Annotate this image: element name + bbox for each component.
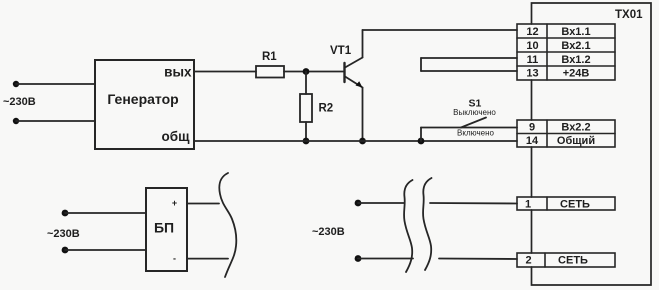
wire R1 to base bbox=[284, 71, 344, 73]
wire BP minus out bbox=[187, 258, 228, 260]
wire break to pin 2 bbox=[439, 258, 517, 261]
svg-text:2: 2 bbox=[525, 255, 531, 267]
wire S1 to pin 9 bbox=[421, 127, 517, 129]
wire break to pin 1 bbox=[430, 202, 517, 205]
node mains input top-left terminal upper bbox=[13, 81, 19, 87]
node junction R2/common rail bbox=[303, 138, 310, 145]
connector table pins 12/10/11/13 bbox=[517, 24, 615, 80]
svg-text:Выключено: Выключено bbox=[453, 108, 496, 117]
resistor R2 bbox=[300, 94, 312, 122]
node mains input top-left terminal lower bbox=[13, 118, 19, 124]
wire bbox=[16, 83, 95, 85]
svg-text:Общий: Общий bbox=[557, 135, 595, 147]
svg-text:Генератор: Генератор bbox=[107, 91, 178, 107]
cable break wavy line at BP bbox=[219, 173, 236, 277]
node PSU input terminal lower bbox=[62, 247, 69, 254]
svg-text:Включено: Включено bbox=[457, 129, 494, 138]
node mains mid terminal lower bbox=[355, 255, 362, 262]
svg-text:1: 1 bbox=[525, 199, 531, 211]
svg-text:СЕТЬ: СЕТЬ bbox=[560, 199, 590, 211]
svg-text:12: 12 bbox=[526, 26, 538, 38]
wire emitter down bbox=[362, 88, 364, 142]
connector TX01 outline bbox=[532, 3, 652, 285]
svg-text:~230В: ~230В bbox=[312, 226, 345, 238]
svg-text:11: 11 bbox=[527, 54, 539, 66]
connector table pin 2 bbox=[517, 253, 615, 267]
wire common rail bbox=[194, 140, 517, 142]
wire to break bbox=[358, 202, 404, 204]
wire BP plus out bbox=[187, 203, 219, 205]
svg-text:VT1: VT1 bbox=[330, 45, 352, 57]
switch S1 bbox=[453, 98, 496, 138]
wire R2 top bbox=[305, 72, 307, 95]
connector table pin 1 bbox=[517, 197, 615, 210]
svg-text:~230В: ~230В bbox=[3, 96, 36, 108]
svg-text:9: 9 bbox=[529, 122, 535, 134]
connector table pins 9/14 bbox=[517, 120, 615, 147]
node junction R1/R2/base bbox=[303, 68, 310, 75]
svg-text:+: + bbox=[172, 198, 177, 208]
svg-text:Вх2.2: Вх2.2 bbox=[561, 122, 590, 134]
svg-text:14: 14 bbox=[526, 135, 539, 147]
svg-text:Вх1.2: Вх1.2 bbox=[561, 54, 590, 66]
svg-text:Вх1.1: Вх1.1 bbox=[561, 26, 590, 38]
wire bbox=[65, 212, 146, 214]
svg-text:-: - bbox=[173, 254, 176, 264]
svg-text:10: 10 bbox=[526, 40, 538, 52]
svg-text:13: 13 bbox=[526, 68, 538, 80]
svg-text:СЕТЬ: СЕТЬ bbox=[558, 255, 588, 267]
wire R2 bottom bbox=[305, 122, 307, 141]
power supply BP box bbox=[146, 188, 187, 271]
cable break wavy line left bbox=[404, 180, 412, 272]
svg-text:R1: R1 bbox=[262, 51, 277, 63]
svg-text:~230В: ~230В bbox=[47, 228, 80, 240]
svg-text:вых: вых bbox=[164, 65, 192, 80]
jumper pins 11-13 bbox=[421, 58, 517, 71]
svg-text:Вх2.1: Вх2.1 bbox=[561, 40, 590, 52]
svg-text:общ: общ bbox=[162, 129, 191, 144]
node junction emitter/common rail bbox=[359, 138, 366, 145]
node junction S1 branch bbox=[418, 138, 425, 145]
transistor VT1 bbox=[330, 45, 363, 88]
cable break wavy line right bbox=[423, 178, 431, 270]
svg-text:+24В: +24В bbox=[563, 68, 590, 80]
svg-text:R2: R2 bbox=[319, 103, 334, 115]
wire generator out to R1 bbox=[194, 71, 256, 73]
wire bbox=[16, 120, 95, 122]
node mains mid terminal upper bbox=[355, 200, 362, 207]
wire collector up bbox=[362, 30, 364, 58]
wire collector rail to pin 12 bbox=[363, 29, 518, 31]
svg-text:БП: БП bbox=[154, 220, 174, 236]
wire S1 branch vertical bbox=[420, 128, 422, 142]
wire bbox=[65, 249, 146, 251]
svg-text:ТХ01: ТХ01 bbox=[615, 9, 643, 21]
node PSU input terminal upper bbox=[62, 210, 69, 217]
wire to break bbox=[358, 258, 413, 260]
resistor R1 bbox=[256, 66, 284, 78]
generator box bbox=[95, 60, 194, 149]
